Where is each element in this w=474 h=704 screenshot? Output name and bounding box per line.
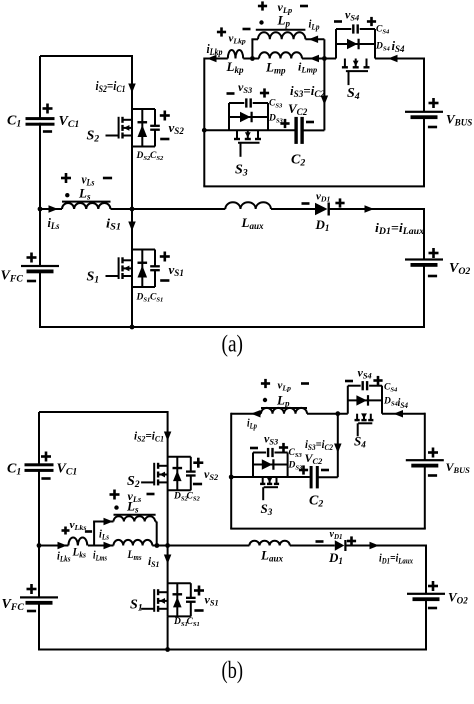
capacitor C_S3 (267, 448, 269, 457)
V_O2 labels (429, 252, 439, 255)
wire: S1 branch vertical (fig b) (167, 546, 169, 617)
wire: D1 to right rail (fig b) (347, 545, 427, 547)
wire: L_ks to L_ms (88, 545, 114, 547)
v_Ls labels (fig b) (110, 493, 120, 496)
source V_O2 (fig b) (407, 593, 445, 595)
current arrow i_S2 = i_C1 (128, 84, 136, 94)
wire: C2 to node B riser with arrow (302, 129, 324, 131)
wire: L_p wire (fig b) (231, 413, 261, 415)
source V_FC (21, 265, 59, 267)
wire: left rail to bottom (fig b) (38, 603, 40, 649)
current arrow i_Lp (fig b) (251, 410, 261, 418)
capacitor C2 (294, 117, 297, 144)
wire: S3 branch horizontal (204, 129, 294, 131)
L_p core bar (fig b) (261, 407, 307, 409)
wire: fig(b) top wire (39, 411, 168, 413)
node: left-mid junction (fig b) (37, 543, 42, 548)
node: S3 branch junction (fig b) (229, 475, 234, 480)
wire: mid rail L_aux to D1 (271, 208, 315, 210)
node: S1 bottom junction (fig b) (165, 647, 170, 652)
body diode D_S2 of S2 (176, 457, 178, 491)
body diode D_S1 of S1 (176, 583, 178, 616)
v_Lks labels (62, 529, 70, 532)
wire: V_BUS to subcircuit bottom (423, 118, 425, 187)
V_FC labels (fig b) (27, 588, 37, 591)
wire: left rail C1 to V_FC (39, 123, 41, 266)
wire: subcircuit left vertical (203, 58, 205, 187)
L_p core bar (256, 29, 306, 31)
Ls labels and polarity dot (61, 177, 71, 180)
transistor S4 (MOSFET) (342, 59, 370, 86)
node B: junction L_p/L_mp/S4/C2 (322, 56, 327, 61)
current arrow i_S1 (fig b) (164, 555, 172, 565)
wire: L_kp to node A (243, 58, 259, 60)
wire: fig(b) mid rail start (39, 545, 68, 547)
wire: S2 branch vertical (131, 55, 133, 209)
current arrow i_S1 (128, 222, 136, 232)
node: Ls branch rejoin (155, 543, 160, 548)
node: S1 bottom junction (130, 325, 135, 330)
diode D1 (315, 203, 328, 215)
snubber box of S1 (168, 583, 191, 616)
inductor Ls (62, 203, 110, 209)
snubber box of S4 (336, 29, 375, 59)
inductor L_ms (magnetizing) (114, 540, 153, 546)
wire: fig(a) bottom rail (39, 326, 425, 328)
source V_BUS (fig b) (406, 459, 444, 461)
capacitor C_S2 of S2 (150, 125, 160, 127)
wire: L_p right side with current arrow i_Lp (305, 38, 324, 40)
capacitor C1 (26, 117, 55, 120)
wire: subcircuit bottom rail (203, 185, 425, 187)
snubber box of S2 (168, 457, 191, 491)
transistor S3 (MOSFET) (234, 130, 261, 157)
source V_O2 (405, 258, 443, 260)
voltage v_S1 labels (160, 255, 170, 258)
diode D_S4 (356, 395, 367, 405)
node A: L_kp/L_mp/L_p junction (250, 56, 255, 61)
snubber box of S3 (229, 103, 268, 130)
wire: Ls branch right riser (155, 521, 157, 523)
wire: fig(a) left vertical rail (39, 56, 41, 119)
diode D_S3 (262, 459, 273, 469)
wire: subcircuit bottom rail (fig b) (230, 528, 426, 530)
wire: fig(b) right rail top (425, 545, 427, 594)
transistor S4 (MOSFET) (355, 413, 374, 436)
node: S-branch mid junction (130, 207, 135, 212)
transistor S1 (MOSFET) (106, 257, 133, 279)
svg-text:(b): (b) (222, 658, 244, 684)
current arrow i_D1 = i_Laux (365, 205, 375, 213)
wire: right rail to bottom (fig b) (425, 600, 427, 650)
current arrow i_D1=i_Laux (fig b) (370, 542, 380, 550)
wire: L_ms to S branch (152, 545, 249, 547)
transistor S2 (MOSFET) (141, 463, 168, 486)
inductor L_ks (68, 538, 87, 546)
V_BUS labels (fig b) (428, 451, 438, 454)
current arrow i_Ls (fig b) (104, 518, 114, 526)
wire: fig(b) bottom rail (38, 649, 427, 651)
current arrow i_S2 = i_C1 (fig b) (164, 432, 172, 442)
snubber box of S3 (253, 453, 288, 478)
body diode D_S2 of S2 (141, 109, 143, 147)
transistor S2 (MOSFET) (106, 117, 133, 139)
node: S branch mid junction (fig b) (165, 543, 170, 548)
transistor S3 (MOSFET) (260, 477, 279, 500)
voltage v_S2 labels (193, 461, 203, 464)
body diode D_S1 of S1 (141, 250, 143, 288)
wire: S2 branch vertical (fig b) (167, 411, 169, 546)
L_p labels and polarity dot (258, 5, 267, 8)
inductor L_kp (228, 50, 243, 59)
snubber box of S2 (132, 109, 155, 147)
wire: V_BUS to box bottom (fig b) (424, 466, 426, 528)
diode D_S3 (240, 112, 251, 122)
current arrow i_Lms (104, 542, 114, 550)
transistor S1 (MOSFET) (141, 589, 168, 612)
capacitor C1 (fig b) (25, 463, 54, 466)
wire: fig(b) left vertical rail (38, 412, 40, 465)
wire: mid rail D1 to right rail (330, 208, 425, 210)
voltage v_S1 labels (194, 589, 204, 592)
node: left-mid junction (38, 207, 43, 212)
Ls polarity dot and label (fig b) (114, 505, 118, 509)
wire: Ls parallel branch riser (93, 522, 95, 546)
wire: mid rail from left to S-branch (40, 208, 62, 210)
voltage v_S2 labels (160, 114, 170, 117)
source V_FC (fig b) (20, 596, 58, 598)
diode D_S4 (347, 39, 358, 49)
diode D1 (fig b) (335, 540, 345, 550)
Ls core bar (62, 201, 111, 203)
V_BUS labels (429, 102, 439, 105)
current arrow i_Lks (58, 542, 68, 550)
wire: right rail V_O2 to bottom (423, 266, 425, 328)
wire: S4 to V_BUS (fig b) (382, 413, 425, 415)
V_O2 labels (fig b) (428, 585, 438, 588)
inductor L_p (coupled winding) (258, 32, 305, 39)
wire: S3 branch horizontal (fig b) (231, 476, 310, 478)
wire: L_p left riser (251, 39, 253, 58)
current arrow i_S4 (388, 55, 398, 63)
inductor L_mp (magnetizing) (259, 52, 302, 58)
capacitor C_S2 of S2 (186, 470, 196, 472)
wire: subcircuit left vertical (fig b) (230, 413, 232, 529)
capacitor C_S1 of S1 (150, 265, 160, 267)
node C: L_p/S4/C2 junction (fig b) (335, 411, 340, 416)
wire: S4 to V_BUS (375, 58, 424, 60)
inductor L_p (fig b) (261, 408, 307, 414)
inductor L_aux (225, 202, 271, 209)
wire: S1 branch vertical (131, 209, 133, 287)
wire: C2 to node C riser (fig b) (317, 476, 338, 478)
capacitor C_S1 of S1 (186, 597, 196, 599)
wire: S1 branch to bottom (fig b) (167, 616, 169, 649)
capacitor C2 (fig b) (310, 466, 313, 488)
inductor Ls (fig b) (114, 516, 156, 521)
L_p labels and dot (fig b) (261, 382, 270, 385)
current arrow i_Lkp (207, 55, 217, 63)
wire: S1 branch to bottom rail (131, 287, 133, 327)
wire: mid rail Ls to L_aux (111, 208, 226, 210)
wire: fig(a) top wire (40, 55, 132, 57)
wire: L_p to node C (307, 413, 348, 415)
source V_BUS (405, 111, 443, 113)
wire: L_aux to D1 (fig b) (290, 545, 335, 547)
current arrow i_Ls (49, 205, 59, 213)
capacitor C_S4 (362, 381, 364, 390)
V_FC labels (27, 256, 37, 259)
node: S3 branch on left vertical (202, 128, 207, 133)
current arrow i_S4 (fig b) (394, 410, 404, 418)
wire: top wire to L_kp (204, 58, 228, 60)
inductor L_aux (fig b) (249, 541, 289, 546)
wire: fig(a) right rail top (423, 208, 425, 259)
Ls core bar (fig b) (114, 514, 156, 516)
wire: left rail C1 to mid (fig b) (38, 469, 40, 597)
wire: L_mp to node B with current arrow i_Lmp (302, 58, 336, 60)
capacitor C_S4 (352, 24, 354, 33)
snubber box of S4 (348, 386, 382, 414)
snubber box of S1 (132, 250, 155, 288)
svg-text:(a): (a) (222, 332, 244, 358)
wire: left rail V_FC to bottom (39, 272, 41, 327)
capacitor C_S3 (245, 98, 247, 107)
v_Lkp labels (217, 31, 226, 34)
